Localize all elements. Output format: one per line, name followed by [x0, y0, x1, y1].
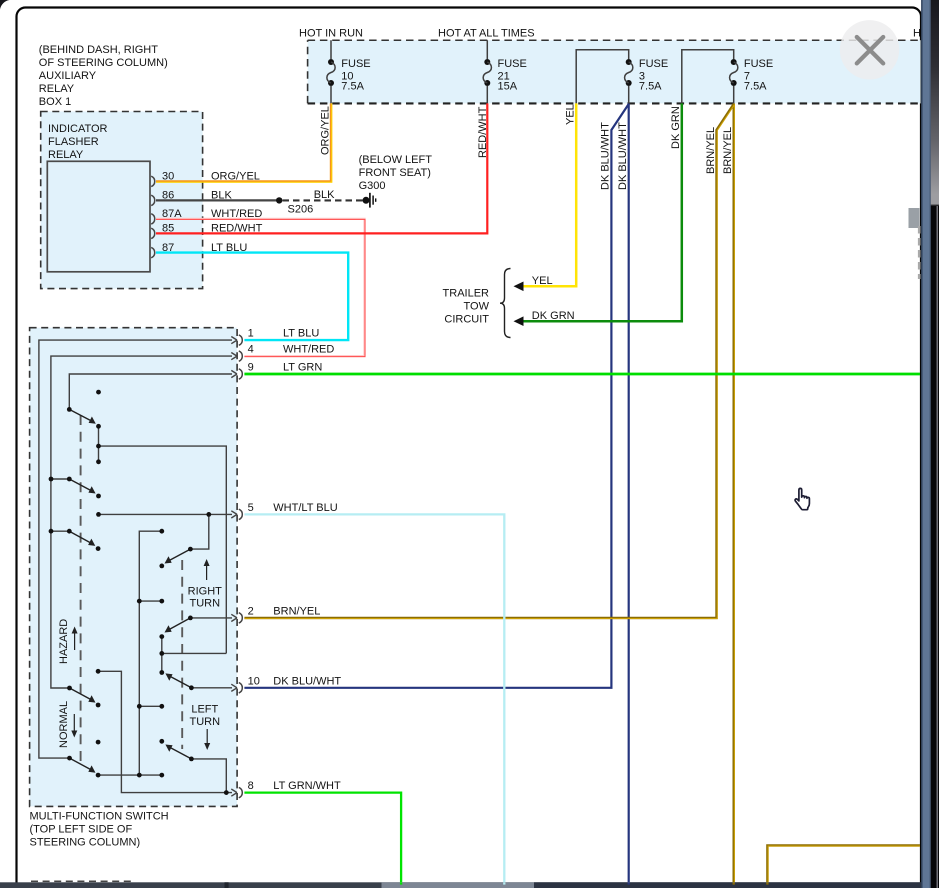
- right slate band: [921, 0, 931, 888]
- node dot left-turn pivot: [189, 757, 194, 762]
- dashed marks at right frame edge: [918, 226, 921, 279]
- svg-text:NORMAL: NORMAL: [58, 701, 70, 748]
- partial dashed box at bottom: [31, 880, 133, 882]
- svg-text:5: 5: [248, 502, 254, 514]
- bottom scrollbar notch: [225, 882, 229, 888]
- trailer tow circuit arrows and labels: [443, 269, 575, 338]
- svg-text:LT GRN/WHT: LT GRN/WHT: [273, 780, 341, 792]
- wire WHT/LT BLU pin 5: [244, 514, 504, 882]
- svg-text:WHT/LT BLU: WHT/LT BLU: [273, 502, 337, 514]
- switch contact arm SW5 (bottom): [70, 758, 96, 773]
- node dot contact SW2: [96, 494, 101, 499]
- switch contact arm SW8 (pin10 left turn): [165, 673, 191, 687]
- wire BRN/YEL bottom right stub: [767, 845, 920, 882]
- node dot riser tap 775: [137, 773, 142, 778]
- svg-text:G300: G300: [359, 180, 386, 192]
- svg-text:DK GRN: DK GRN: [532, 310, 575, 322]
- svg-text:STEERING COLUMN): STEERING COLUMN): [30, 837, 141, 849]
- svg-text:7.5A: 7.5A: [639, 81, 662, 93]
- node dot pivot SW5: [67, 756, 72, 761]
- label LEFT TURN with down arrow: [190, 704, 221, 750]
- relay pin 86: [151, 190, 232, 206]
- relay pin 85: [151, 223, 262, 239]
- svg-text:7.5A: 7.5A: [341, 81, 364, 93]
- node dot contact SW4: [96, 703, 101, 708]
- wire LT GRN pin 9 across page: [244, 373, 920, 376]
- wire pin5 to right-turn pivot: [190, 514, 208, 549]
- splice S206: [276, 197, 282, 203]
- node dot riser top contact: [159, 529, 164, 534]
- svg-text:RELAY: RELAY: [39, 83, 75, 95]
- svg-text:TURN: TURN: [190, 716, 221, 728]
- svg-text:7.5A: 7.5A: [744, 81, 767, 93]
- wire pin8 feed: [98, 671, 232, 792]
- node dot riser tap 706: [137, 704, 142, 709]
- svg-text:8: 8: [248, 780, 254, 792]
- node dot open contact above SW5: [96, 740, 101, 745]
- svg-text:4: 4: [248, 344, 254, 356]
- wire pin9 feed: [69, 374, 232, 409]
- svg-text:RELAY: RELAY: [48, 149, 84, 161]
- wire BRN/YEL vertical from fuse F7: [733, 103, 736, 882]
- svg-text:2: 2: [248, 606, 254, 618]
- fuse box (dashed, light blue): [308, 40, 921, 103]
- fuse feed wires inside fuse box: [331, 40, 734, 103]
- svg-text:YEL: YEL: [532, 275, 553, 287]
- multi-function switch box (dashed, light blue): [30, 328, 238, 807]
- node dot pivot SW1: [67, 407, 72, 412]
- switch contact arm SW7 (pin2 right turn): [165, 618, 191, 633]
- faint light line in dark strip: [937, 206, 938, 888]
- svg-text:DK GRN: DK GRN: [670, 106, 682, 149]
- svg-text:FRONT SEAT): FRONT SEAT): [359, 167, 431, 179]
- switch contact arm SW9 (left turn lower): [165, 745, 191, 759]
- svg-text:FLASHER: FLASHER: [48, 136, 99, 148]
- MFS pin 4: [231, 344, 334, 362]
- node dot riser tap 601: [137, 599, 142, 604]
- junction dots: [49, 390, 229, 795]
- wire LT GRN/WHT pin 8: [244, 793, 401, 882]
- wire pin4 feed: [51, 356, 232, 688]
- mouse cursor (hand pointer): [795, 488, 809, 509]
- node dot hazard chain mid: [96, 444, 101, 449]
- fuse F7: [730, 58, 774, 93]
- switch contact arm SW4 (normal): [70, 688, 96, 703]
- svg-text:OF STEERING COLUMN): OF STEERING COLUMN): [39, 57, 168, 69]
- node dot riser contact 775: [159, 773, 164, 778]
- multi-function switch caption: [30, 811, 169, 849]
- switch contact arm SW1 (flasher feed): [69, 409, 96, 423]
- fuse F3: [625, 58, 669, 93]
- wire pin1 feed: [39, 340, 232, 758]
- indicator flasher relay U1 body: [47, 161, 150, 271]
- MFS pin 2: [231, 606, 320, 624]
- MFS pin 8: [231, 780, 341, 798]
- svg-text:LT BLU: LT BLU: [283, 328, 319, 340]
- node dot pin5 line start: [96, 512, 101, 517]
- node dot pivot SW3: [67, 529, 72, 534]
- svg-text:FUSE: FUSE: [341, 58, 370, 70]
- svg-text:(BEHIND DASH, RIGHT: (BEHIND DASH, RIGHT: [39, 44, 158, 56]
- top-left dark corner: [0, 0, 10, 10]
- wire hazard pivot stub upper: [51, 478, 69, 480]
- wire RED/WHT relay pin85 to fuse F21: [156, 103, 487, 233]
- svg-text:TURN: TURN: [190, 598, 221, 610]
- wire BLK relay pin86 to splice S206: [156, 199, 279, 201]
- svg-text:1: 1: [248, 328, 254, 340]
- node dot line2 tap lower: [49, 529, 54, 534]
- wire pin10 line: [191, 687, 232, 689]
- wire DK BLU/WHT vertical from fuse F3: [628, 103, 630, 882]
- node dot pin2 contact: [159, 634, 164, 639]
- node dot left-turn contact 672: [159, 670, 164, 675]
- node dot pin8 junction: [224, 790, 229, 795]
- MFS pin 1: [231, 328, 319, 346]
- node dot contact SW1: [96, 424, 101, 429]
- svg-text:HOT AT ALL TIMES: HOT AT ALL TIMES: [438, 27, 535, 39]
- svg-text:MULTI-FUNCTION SWITCH: MULTI-FUNCTION SWITCH: [30, 811, 169, 823]
- node dot riser contact 706: [159, 704, 164, 709]
- node dot open contact above SW4: [96, 669, 101, 674]
- node dot pivot SW4: [67, 686, 72, 691]
- svg-text:BRN/YEL: BRN/YEL: [273, 606, 320, 618]
- arrowhead YEL: [514, 282, 524, 292]
- MFS pin 10: [231, 675, 341, 693]
- svg-text:BLK: BLK: [314, 189, 335, 201]
- wire right-turn riser: [98, 531, 162, 775]
- node dot line2 tap upper: [49, 477, 54, 482]
- label RIGHT TURN with up arrow: [188, 559, 223, 610]
- node dot pivot SW2: [67, 477, 72, 482]
- wire WHT/RED relay pin87A to pin 4: [156, 219, 365, 357]
- svg-text:WHT/RED: WHT/RED: [283, 344, 334, 356]
- wire YEL from fuse F3 bracket to trailer tow: [517, 103, 576, 286]
- fuse F21: [483, 58, 527, 93]
- svg-text:DK BLU/WHT: DK BLU/WHT: [600, 122, 612, 190]
- node dot pin10 pivot: [189, 685, 194, 690]
- svg-text:TOW: TOW: [464, 301, 490, 313]
- svg-text:BRN/YEL: BRN/YEL: [722, 127, 734, 174]
- wire hazard pivot stub lower: [51, 530, 69, 532]
- MFS pin 9: [231, 362, 322, 380]
- node dot contact SW3: [96, 546, 101, 551]
- relay pin 30: [151, 171, 260, 187]
- label HAZARD with up arrow: [58, 619, 78, 664]
- svg-text:S206: S206: [288, 204, 314, 216]
- relay pin 87A: [151, 208, 262, 224]
- svg-text:DK BLU/WHT: DK BLU/WHT: [617, 122, 629, 190]
- right dark gradient strip: [931, 0, 939, 888]
- wire ticks over scrollbar: [401, 882, 767, 884]
- node dot right turn contact: [159, 564, 164, 569]
- svg-text:LT GRN: LT GRN: [283, 362, 322, 374]
- node dot hazard chain lower: [96, 459, 101, 464]
- viewer vertical scrollbar thumb: [909, 208, 920, 228]
- svg-text:HAZARD: HAZARD: [58, 619, 70, 664]
- node dot right turn pivot: [188, 547, 193, 552]
- svg-text:(TOP LEFT SIDE OF: (TOP LEFT SIDE OF: [30, 824, 133, 836]
- svg-text:FUSE: FUSE: [498, 58, 527, 70]
- svg-text:RED/WHT: RED/WHT: [477, 106, 489, 158]
- wire LT BLU relay pin87 to pin 1: [156, 253, 348, 341]
- label NORMAL with down arrow: [58, 701, 77, 748]
- relay pin 87: [151, 242, 247, 258]
- left turn section divider (dashed): [181, 560, 183, 749]
- svg-text:RIGHT: RIGHT: [188, 586, 223, 598]
- wire DK GRN from fuse F7 bracket to trailer tow: [517, 103, 682, 321]
- hazard section divider (dashed): [80, 415, 82, 761]
- svg-text:AUXILIARY: AUXILIARY: [39, 70, 97, 82]
- wire BLK dashed S206 to G300: [283, 199, 363, 201]
- svg-text:ORG/YEL: ORG/YEL: [319, 106, 331, 155]
- svg-text:9: 9: [248, 362, 254, 374]
- svg-text:HOT IN RUN: HOT IN RUN: [299, 27, 363, 39]
- svg-text:BRN/YEL: BRN/YEL: [705, 127, 717, 174]
- svg-text:YEL: YEL: [565, 104, 577, 125]
- switch contact arm SW6 (right turn): [165, 549, 191, 563]
- node dot contact SW5: [96, 773, 101, 778]
- bottom scrollbar track: [0, 882, 921, 888]
- bottom scrollbar right segment: [534, 882, 921, 888]
- wire pin2 line: [190, 617, 232, 619]
- fuse F10: [327, 58, 371, 93]
- wire ORG/YEL relay pin30 to fuse F10: [156, 103, 332, 182]
- switch internal wires (gray): [39, 340, 232, 792]
- switch contact arm SW3 (hazard lower): [69, 531, 95, 546]
- wire BRN/YEL branch to pin 2: [244, 104, 734, 619]
- node dot left-turn contact 741: [159, 739, 164, 744]
- svg-text:INDICATOR: INDICATOR: [48, 123, 108, 135]
- node dot riser contact 601: [159, 599, 164, 604]
- svg-text:10: 10: [248, 675, 260, 687]
- svg-text:FUSE: FUSE: [744, 58, 773, 70]
- bottom scrollbar thumb: [382, 882, 535, 888]
- wire pin5 line: [99, 513, 233, 515]
- wire hazard contact chain: [99, 426, 227, 653]
- svg-text:LEFT: LEFT: [191, 704, 218, 716]
- wire right-turn contact column: [162, 637, 227, 673]
- svg-text:BOX 1: BOX 1: [39, 96, 71, 108]
- svg-text:DK BLU/WHT: DK BLU/WHT: [273, 675, 341, 687]
- svg-text:(BELOW LEFT: (BELOW LEFT: [359, 154, 433, 166]
- relay box (dashed, light blue): [41, 112, 203, 289]
- ground G300: [359, 154, 433, 208]
- wire DK BLU/WHT branch to pin 10: [244, 104, 628, 688]
- wire left-turn pivot to pin8 line: [191, 759, 226, 793]
- svg-text:H: H: [913, 27, 921, 39]
- MFS pin 5: [231, 502, 337, 520]
- switch contact arm SW2 (hazard upper): [69, 479, 95, 494]
- svg-text:15A: 15A: [498, 81, 518, 93]
- svg-text:FUSE: FUSE: [639, 58, 668, 70]
- svg-text:CIRCUIT: CIRCUIT: [444, 313, 489, 325]
- svg-text:TRAILER: TRAILER: [443, 288, 490, 300]
- node dot pin5 junction: [206, 512, 211, 517]
- node dot open contact above SW1: [96, 390, 101, 395]
- node dot right-turn junction 653: [159, 651, 164, 656]
- close button: [840, 20, 899, 79]
- node dot pin2 pivot: [188, 616, 193, 621]
- brace: [500, 269, 511, 338]
- arrowhead DK GRN: [514, 316, 524, 326]
